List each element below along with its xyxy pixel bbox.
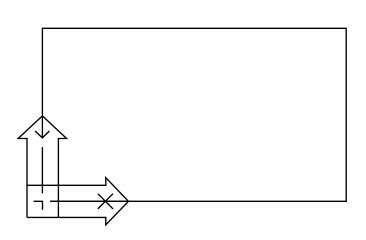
right-arrow block top: body top edge, top shoulder, head top diagonal to tip [27,178,128,202]
corner bracket mark at rectangle bottom-left corner [34,201,43,210]
up-arrow axis middle segment [41,147,43,193]
inner down-arrowhead V in up arrow [35,131,49,138]
up-arrow block outline right half: apex, right head corner, right shoulder, body right side [42,116,66,217]
right-arrow axis centerline from gap through head tip merging into rectangle bottom edge [50,200,130,202]
right-arrow block bottom: shared bottom edge, bottom shoulder, head bottom diagonal to tip [27,201,128,225]
rectangle left edge continuing as inner down-arrow shaft [41,28,43,138]
X mark at right-arrow shoulder [98,194,113,209]
rectangle top, right and bottom edges (bottom stops at gap near bottom-left corner) [42,28,347,201]
up-arrow block outline left half: apex, left head corner, left shoulder, body left side [18,116,42,217]
